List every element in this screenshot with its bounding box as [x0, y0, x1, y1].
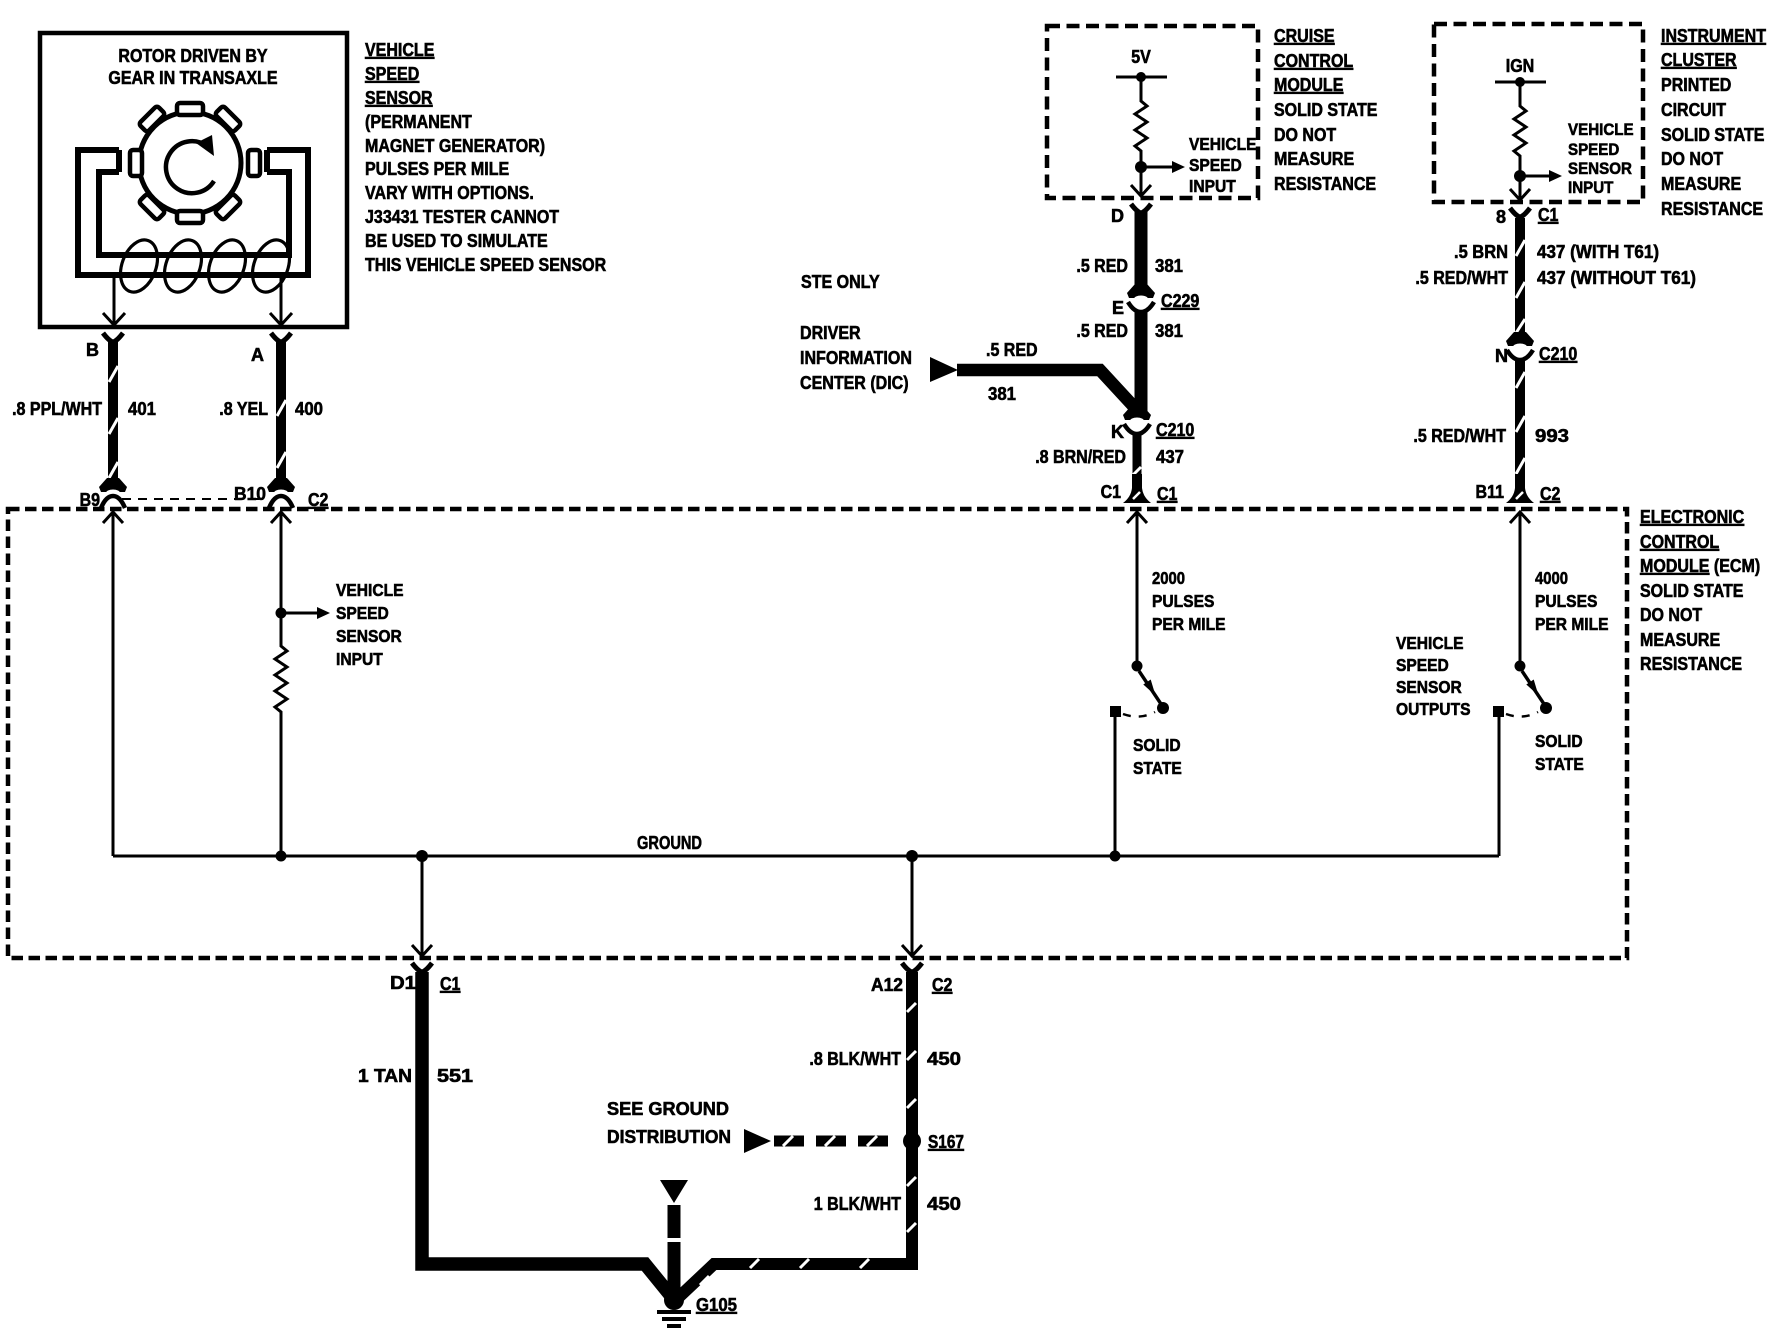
svg-text:.8 BRN/RED: .8 BRN/RED	[1035, 447, 1126, 467]
node D1 junction	[416, 850, 428, 862]
svg-text:381: 381	[1155, 256, 1183, 276]
svg-text:SEE GROUND: SEE GROUND	[607, 1099, 729, 1119]
connector fork B	[103, 333, 123, 342]
svg-text:.5 RED/WHT: .5 RED/WHT	[1415, 268, 1508, 288]
svg-text:401: 401	[128, 399, 156, 419]
wire N to B11 .5 RED/WHT 993	[1515, 358, 1525, 484]
pickup coil	[114, 235, 296, 297]
svg-text:PRINTED: PRINTED	[1661, 75, 1731, 95]
connector B11 bell end	[1506, 474, 1534, 503]
resistor cluster	[1514, 82, 1526, 200]
svg-text:THIS VEHICLE SPEED SENSOR: THIS VEHICLE SPEED SENSOR	[365, 255, 606, 275]
switch 1 contact	[1110, 706, 1121, 717]
switch 1 blade	[1139, 671, 1161, 704]
svg-text:G105: G105	[696, 1295, 737, 1315]
sensor lead wire right	[280, 278, 283, 325]
svg-text:993: 993	[1535, 426, 1569, 446]
svg-text:450: 450	[927, 1049, 961, 1069]
svg-text:1 TAN: 1 TAN	[358, 1066, 412, 1086]
svg-text:E: E	[1112, 298, 1124, 318]
wire D1 drop	[421, 856, 424, 956]
svg-text:C2: C2	[1540, 484, 1560, 504]
connector C229 male skirt	[1127, 284, 1155, 298]
connector fork D1	[412, 963, 432, 972]
svg-text:C229: C229	[1161, 291, 1199, 311]
5V rail	[1116, 76, 1167, 79]
arrowhead down at cruise exit	[1131, 185, 1151, 196]
ground bus wire	[113, 855, 1499, 858]
svg-text:INFORMATION: INFORMATION	[800, 348, 912, 368]
svg-text:.8 YEL: .8 YEL	[219, 399, 268, 419]
ground symbol G105	[657, 1312, 691, 1326]
resistor in ECM	[275, 624, 287, 856]
svg-text:CONTROL: CONTROL	[1640, 532, 1719, 552]
label SOLID STATE switch2	[1535, 731, 1584, 774]
node 5V	[1136, 72, 1146, 82]
label VEHICLE SPEED INPUT	[1189, 134, 1257, 196]
ground lead triangle	[660, 1180, 688, 1203]
instrument cluster dashed box	[1434, 24, 1643, 202]
svg-text:.5 RED: .5 RED	[986, 340, 1038, 360]
svg-text:4000: 4000	[1535, 568, 1568, 588]
label 2000 PULSES PER MILE	[1152, 568, 1226, 634]
wire B10 down	[280, 512, 283, 624]
sensor lead wire left	[113, 278, 116, 325]
svg-text:C1: C1	[1157, 484, 1177, 504]
vehicle speed sensor box	[40, 33, 347, 327]
arrowhead down at A12	[902, 945, 922, 956]
arrow right vehicle speed input	[1141, 166, 1172, 169]
svg-text:MODULE: MODULE	[1274, 75, 1343, 95]
connector fork 8	[1510, 208, 1530, 217]
DIC off-page arrow	[930, 357, 958, 382]
switch 2 end node	[1540, 702, 1552, 714]
DIC wire .5 RED 381	[957, 370, 1136, 409]
dashed link B9 to B10	[122, 498, 266, 500]
svg-text:2000: 2000	[1152, 568, 1185, 588]
svg-text:S167: S167	[928, 1132, 964, 1152]
arrow right vehicle speed sensor input	[281, 612, 317, 615]
svg-text:J33431 TESTER CANNOT: J33431 TESTER CANNOT	[365, 207, 559, 227]
pickup core lip left	[116, 150, 122, 172]
label VEHICLE SPEED SENSOR INPUT	[1568, 120, 1634, 197]
svg-text:MEASURE: MEASURE	[1640, 630, 1720, 650]
svg-text:MEASURE: MEASURE	[1661, 174, 1741, 194]
label CRUISE CONTROL MODULE notes	[1274, 26, 1378, 194]
arrow up into ECM at B10	[271, 512, 291, 523]
SENSOR-BOX-SECTION	[12, 33, 606, 510]
svg-text:RESISTANCE: RESISTANCE	[1640, 654, 1742, 674]
svg-text:SPEED: SPEED	[336, 603, 389, 623]
arrow up into ECM at B9	[103, 512, 123, 523]
svg-text:BE USED TO SIMULATE: BE USED TO SIMULATE	[365, 231, 548, 251]
wire B .8 PPL/WHT 401	[108, 342, 118, 484]
node B10 ground junction	[276, 851, 287, 862]
wire 1 TAN 551	[422, 972, 671, 1296]
connector K male skirt	[1123, 406, 1151, 420]
svg-text:.5 RED/WHT: .5 RED/WHT	[1413, 426, 1506, 446]
svg-text:D1: D1	[390, 973, 416, 993]
svg-text:STATE: STATE	[1133, 758, 1182, 778]
svg-text:IGN: IGN	[1506, 56, 1535, 76]
svg-text:CONTROL: CONTROL	[1274, 51, 1353, 71]
node VSS input junction	[276, 608, 287, 619]
svg-text:ELECTRONIC: ELECTRONIC	[1640, 507, 1744, 527]
pickup core outer bracket	[78, 150, 308, 275]
CLUSTER-SECTION	[1413, 24, 1766, 504]
svg-text:SPEED: SPEED	[1396, 655, 1449, 675]
arrowhead down left lead	[103, 313, 125, 325]
wire switch1 to ground	[1114, 717, 1117, 856]
svg-text:437 (WITH T61): 437 (WITH T61)	[1537, 242, 1659, 262]
svg-text:CLUSTER: CLUSTER	[1661, 50, 1737, 70]
svg-text:GROUND: GROUND	[637, 833, 702, 853]
svg-text:STE ONLY: STE ONLY	[801, 272, 880, 292]
node G105	[664, 1290, 684, 1310]
svg-text:VARY WITH OPTIONS.: VARY WITH OPTIONS.	[365, 183, 534, 203]
splice S167	[903, 1132, 921, 1150]
switch 1 pivot node	[1132, 661, 1143, 672]
svg-text:PER MILE: PER MILE	[1152, 614, 1226, 634]
svg-text:OUTPUTS: OUTPUTS	[1396, 699, 1471, 719]
svg-text:B10: B10	[234, 484, 266, 504]
svg-text:CRUISE: CRUISE	[1274, 26, 1335, 46]
connector C1 bell end	[1123, 474, 1151, 503]
wire A12 drop	[911, 856, 914, 956]
IGN rail	[1495, 81, 1546, 84]
svg-text:SOLID: SOLID	[1535, 731, 1583, 751]
svg-text:INPUT: INPUT	[336, 649, 383, 669]
rotation arrow	[166, 141, 214, 193]
wire E to K .5 RED 381	[1135, 310, 1148, 412]
arrow right vehicle speed sensor input	[1520, 175, 1549, 178]
arrowhead down at D1	[412, 945, 432, 956]
svg-text:C2: C2	[932, 975, 952, 995]
arrowhead down right lead	[270, 313, 292, 325]
label SOLID STATE switch1	[1133, 735, 1182, 778]
svg-text:CENTER (DIC): CENTER (DIC)	[800, 373, 909, 393]
svg-text:INPUT: INPUT	[1568, 178, 1614, 197]
switch 2 pivot node	[1515, 661, 1526, 672]
svg-text:C210: C210	[1539, 344, 1577, 364]
svg-text:DISTRIBUTION: DISTRIBUTION	[607, 1127, 731, 1147]
wire C1 to switch	[1136, 512, 1139, 661]
svg-text:SOLID STATE: SOLID STATE	[1274, 100, 1378, 120]
label VEHICLE SPEED SENSOR INPUT	[336, 580, 404, 669]
arrowhead down at cluster exit	[1510, 189, 1530, 200]
label VEHICLE SPEED SENSOR OUTPUTS	[1396, 633, 1471, 719]
label ELECTRONIC CONTROL MODULE (ECM)	[1640, 507, 1760, 674]
svg-text:CIRCUIT: CIRCUIT	[1661, 100, 1726, 120]
wire 8 to N .5 BRN 437	[1515, 218, 1525, 338]
svg-text:DRIVER: DRIVER	[800, 323, 861, 343]
resistor cruise	[1135, 77, 1147, 196]
svg-text:551: 551	[437, 1066, 473, 1086]
svg-text:K: K	[1111, 422, 1124, 442]
svg-text:5V: 5V	[1131, 47, 1151, 67]
svg-text:SENSOR: SENSOR	[365, 88, 433, 108]
svg-text:381: 381	[988, 384, 1016, 404]
connector B10 cup	[269, 496, 293, 508]
wire B11 to switch	[1519, 512, 1522, 661]
CRUISE-SECTION	[800, 26, 1378, 504]
svg-text:GEAR IN TRANSAXLE: GEAR IN TRANSAXLE	[108, 68, 277, 88]
wire .8 BLK/WHT 450	[679, 972, 912, 1297]
connector B10 male skirt	[267, 478, 295, 492]
connector C229 cup	[1128, 302, 1154, 312]
svg-text:RESISTANCE: RESISTANCE	[1274, 174, 1376, 194]
connector B9 cup	[101, 496, 125, 508]
svg-text:SENSOR: SENSOR	[1396, 677, 1462, 697]
svg-text:1 BLK/WHT: 1 BLK/WHT	[814, 1194, 901, 1214]
svg-text:INPUT: INPUT	[1189, 176, 1236, 196]
svg-text:437: 437	[1156, 447, 1184, 467]
svg-text:PER MILE: PER MILE	[1535, 614, 1609, 634]
svg-text:INSTRUMENT: INSTRUMENT	[1661, 26, 1766, 46]
svg-text:DO NOT: DO NOT	[1274, 125, 1336, 145]
svg-text:N: N	[1495, 346, 1508, 366]
svg-text:SENSOR: SENSOR	[336, 626, 402, 646]
svg-text:C1: C1	[440, 974, 460, 994]
svg-text:437 (WITHOUT T61): 437 (WITHOUT T61)	[1537, 268, 1696, 288]
svg-text:RESISTANCE: RESISTANCE	[1661, 199, 1763, 219]
svg-text:PULSES PER MILE: PULSES PER MILE	[365, 159, 509, 179]
svg-text:SPEED: SPEED	[1568, 140, 1619, 159]
svg-text:SOLID STATE: SOLID STATE	[1661, 125, 1765, 145]
ECM dashed box	[8, 509, 1627, 958]
svg-text:PULSES: PULSES	[1535, 591, 1597, 611]
svg-text:.5 BRN: .5 BRN	[1454, 242, 1508, 262]
svg-text:DO NOT: DO NOT	[1661, 149, 1723, 169]
connector N male skirt	[1506, 332, 1534, 346]
svg-text:SPEED: SPEED	[1189, 155, 1242, 175]
wire switch2 to ground	[1498, 717, 1501, 856]
svg-text:MAGNET GENERATOR): MAGNET GENERATOR)	[365, 136, 545, 156]
svg-text:.5 RED: .5 RED	[1076, 256, 1128, 276]
pickup core lip right	[264, 150, 270, 172]
svg-text:(PERMANENT: (PERMANENT	[365, 112, 472, 132]
BOTTOM-SECTION	[358, 963, 964, 1326]
svg-text:SENSOR: SENSOR	[1568, 159, 1632, 178]
svg-text:450: 450	[927, 1194, 961, 1214]
svg-text:.5 RED: .5 RED	[1076, 321, 1128, 341]
switch 2 blade	[1522, 671, 1544, 704]
svg-text:ROTOR DRIVEN BY: ROTOR DRIVEN BY	[118, 46, 267, 66]
svg-text:C1: C1	[1101, 482, 1121, 502]
arrow up into ECM at C1	[1127, 512, 1147, 523]
cruise control module dashed box	[1047, 26, 1258, 198]
svg-text:VEHICLE: VEHICLE	[1396, 633, 1464, 653]
rotor gear	[130, 103, 260, 223]
connector K cup	[1124, 424, 1150, 434]
label SEE GROUND DISTRIBUTION	[607, 1099, 731, 1147]
connector fork A12	[902, 963, 922, 972]
svg-text:D: D	[1111, 206, 1124, 226]
wire B9 to ground	[112, 512, 115, 856]
svg-text:DO NOT: DO NOT	[1640, 605, 1702, 625]
ground lead bar 1	[668, 1205, 681, 1238]
label INSTRUMENT CLUSTER notes	[1661, 26, 1766, 219]
svg-text:.8 BLK/WHT: .8 BLK/WHT	[809, 1049, 901, 1069]
node A12 junction	[906, 850, 918, 862]
switch 2 dashed travel arc	[1506, 712, 1538, 717]
svg-text:400: 400	[295, 399, 323, 419]
switch 1 dashed travel arc	[1123, 712, 1155, 717]
svg-text:MEASURE: MEASURE	[1274, 149, 1354, 169]
svg-text:VEHICLE: VEHICLE	[1189, 134, 1257, 154]
see ground distribution arrow	[744, 1129, 771, 1153]
svg-text:VEHICLE: VEHICLE	[1568, 120, 1634, 139]
svg-text:B11: B11	[1476, 482, 1505, 502]
svg-text:SOLID: SOLID	[1133, 735, 1181, 755]
switch 1 end node	[1157, 702, 1169, 714]
ground lead bar 2	[668, 1242, 681, 1294]
label VEHICLE SPEED SENSOR notes	[365, 40, 606, 275]
svg-text:381: 381	[1155, 321, 1183, 341]
svg-text:A12: A12	[871, 975, 903, 995]
svg-text:B: B	[86, 340, 99, 360]
svg-text:VEHICLE: VEHICLE	[365, 40, 434, 60]
node cluster vss input	[1514, 170, 1526, 182]
connector fork A	[271, 333, 291, 342]
ECM-SECTION	[8, 507, 1760, 958]
pickup core inner bracket	[99, 172, 289, 255]
svg-text:SPEED: SPEED	[365, 64, 419, 84]
svg-text:.8 PPL/WHT: .8 PPL/WHT	[12, 399, 102, 419]
label DRIVER INFORMATION CENTER (DIC)	[800, 323, 912, 393]
arrow up into ECM at B11	[1510, 512, 1530, 523]
wire A .8 YEL 400	[276, 342, 286, 484]
svg-text:8: 8	[1496, 207, 1506, 227]
svg-text:SOLID STATE: SOLID STATE	[1640, 581, 1744, 601]
svg-text:A: A	[251, 345, 264, 365]
wire D to C229 .5 RED 381	[1135, 211, 1148, 290]
connector N cup	[1507, 350, 1533, 360]
connector fork D	[1131, 204, 1151, 213]
svg-text:VEHICLE: VEHICLE	[336, 580, 404, 600]
connector B9 male skirt	[99, 478, 127, 492]
svg-text:STATE: STATE	[1535, 754, 1584, 774]
node IGN	[1515, 77, 1525, 87]
label 4000 PULSES PER MILE	[1535, 568, 1609, 634]
dashed wire to S167	[774, 1136, 900, 1147]
svg-text:C210: C210	[1156, 420, 1194, 440]
node switch1 ground junction	[1110, 851, 1121, 862]
wire K to C1 .8 BRN/RED 437	[1133, 432, 1142, 484]
svg-text:PULSES: PULSES	[1152, 591, 1214, 611]
node cruise vss input	[1135, 161, 1147, 173]
svg-text:C1: C1	[1538, 205, 1558, 225]
svg-text:MODULE (ECM): MODULE (ECM)	[1640, 556, 1760, 576]
switch 2 contact	[1493, 706, 1504, 717]
